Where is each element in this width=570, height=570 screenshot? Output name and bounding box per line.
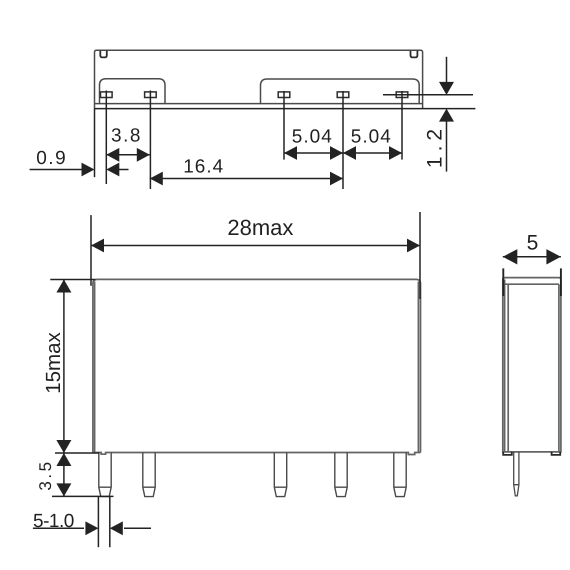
svg-text:5.04: 5.04 [292, 127, 333, 148]
svg-text:5-1.0: 5-1.0 [33, 511, 74, 532]
svg-text:15max: 15max [42, 331, 65, 393]
svg-text:3.8: 3.8 [111, 126, 142, 147]
svg-text:16.4: 16.4 [183, 157, 224, 178]
svg-text:28max: 28max [227, 215, 293, 240]
svg-text:3.5: 3.5 [36, 459, 55, 490]
svg-text:5: 5 [527, 232, 539, 255]
svg-text:0.9: 0.9 [36, 148, 67, 169]
svg-text:5.04: 5.04 [351, 127, 392, 148]
svg-text:1.2: 1.2 [424, 124, 447, 168]
